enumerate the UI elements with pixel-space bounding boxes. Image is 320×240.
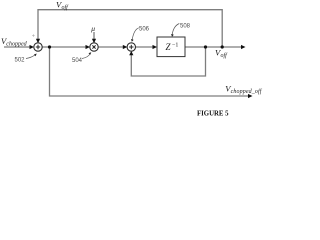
svg-text:μ: μ — [91, 24, 95, 33]
svg-text:−1: −1 — [172, 43, 178, 49]
svg-text:chopped: chopped — [6, 41, 27, 47]
svg-text:506: 506 — [139, 27, 150, 33]
svg-text:FIGURE 5: FIGURE 5 — [197, 110, 229, 117]
svg-text:502: 502 — [15, 58, 26, 64]
svg-text:chopped_off: chopped_off — [231, 88, 263, 95]
svg-text:508: 508 — [180, 23, 191, 29]
svg-text:504: 504 — [72, 58, 83, 64]
